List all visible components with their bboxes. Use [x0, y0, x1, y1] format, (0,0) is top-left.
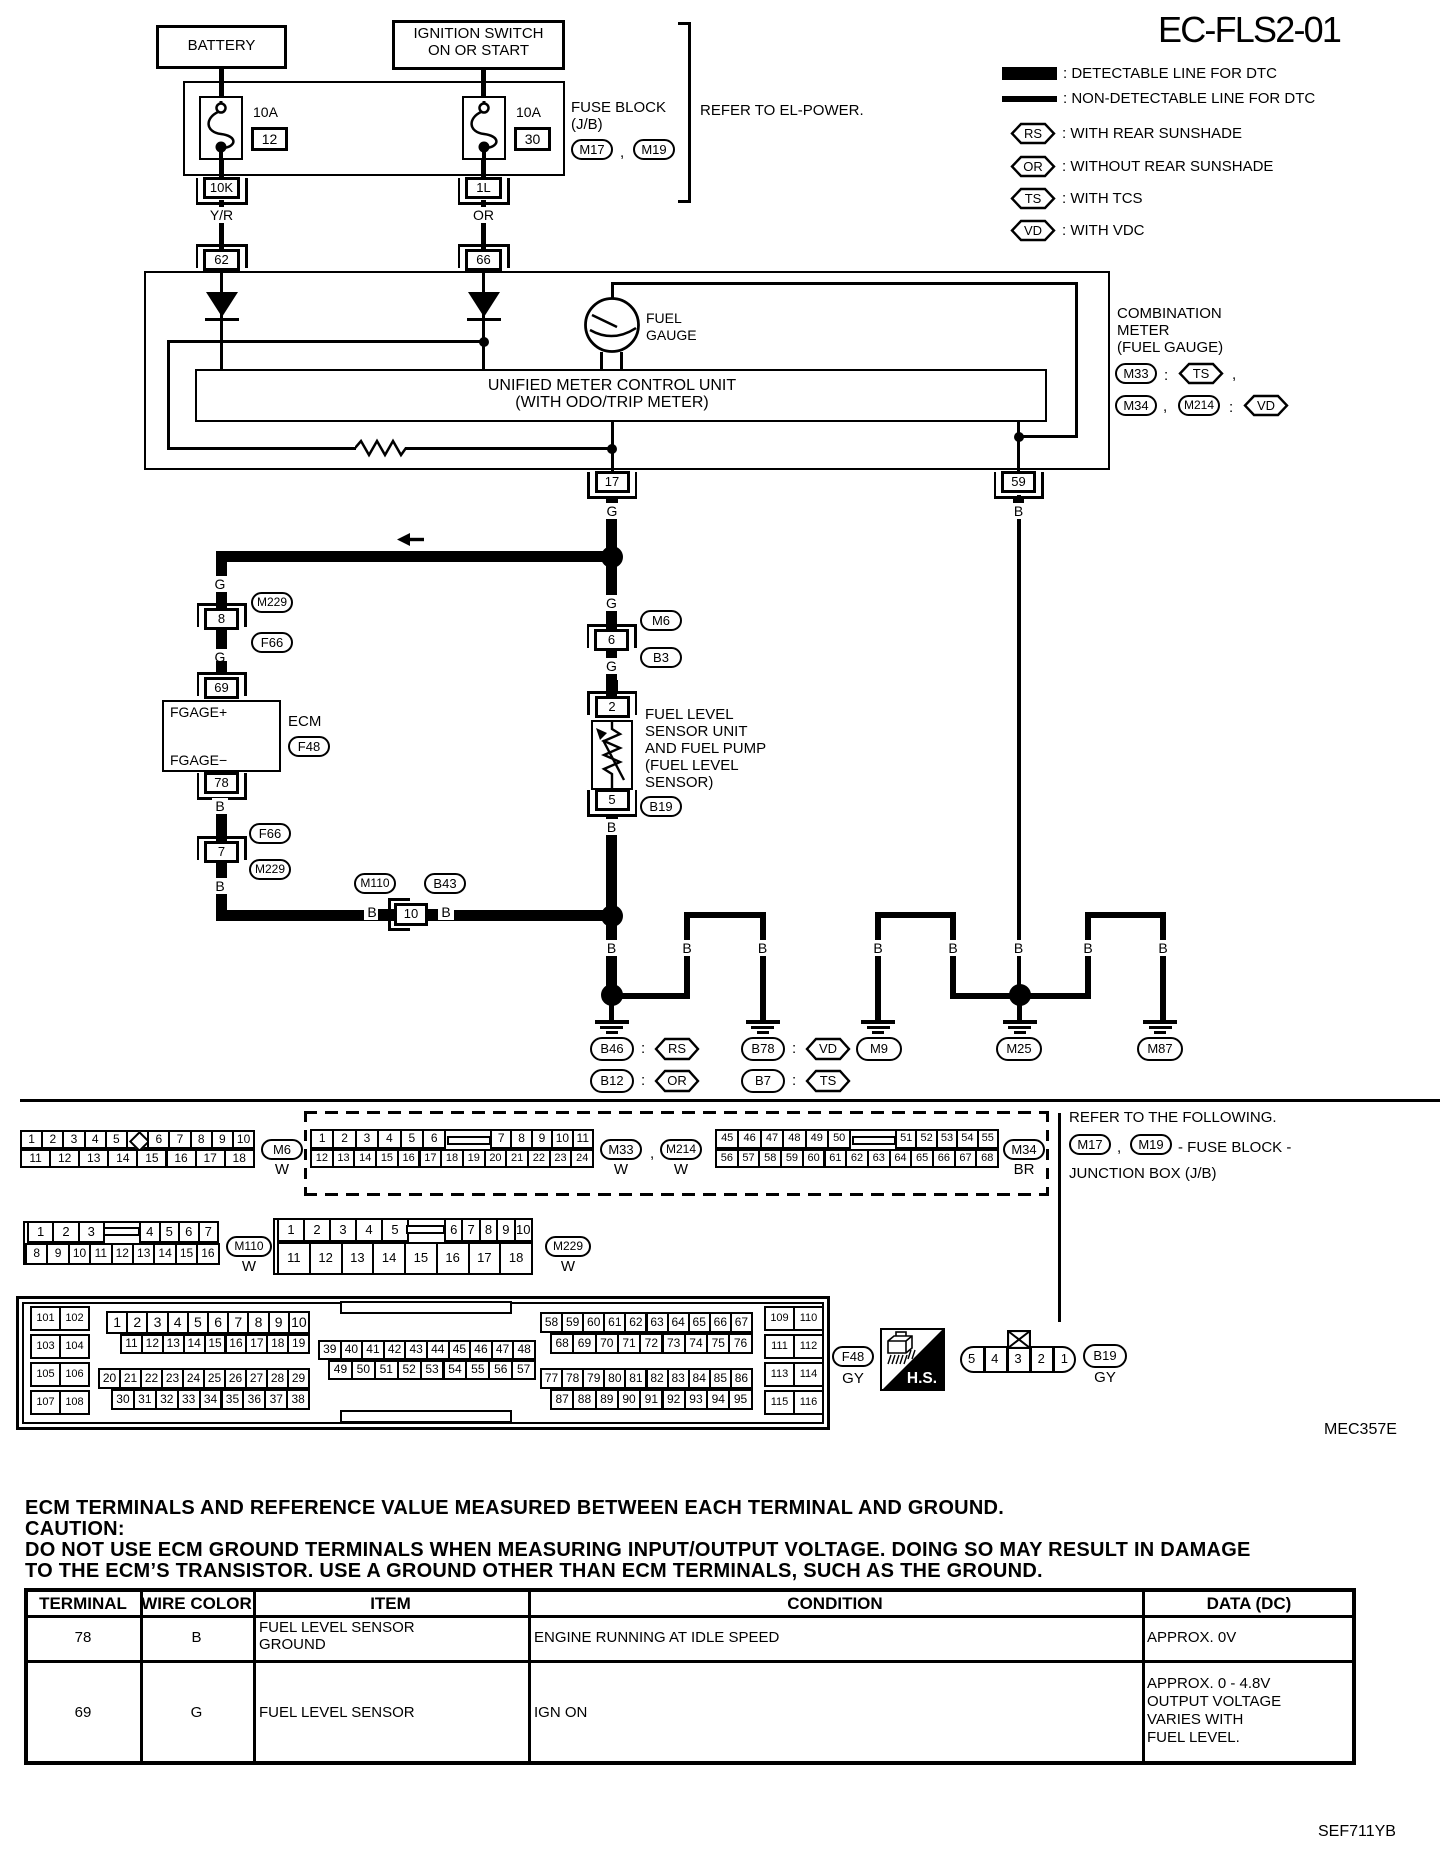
connector M229 pinout — [273, 1218, 531, 1275]
terminal 1L — [458, 202, 510, 205]
fuse2 rating label 10A — [516, 105, 541, 120]
fuse block J/B box — [183, 81, 565, 176]
connector M6 pinout — [20, 1130, 253, 1168]
terminal 2 — [587, 691, 637, 694]
wire color B below 59 — [1017, 495, 1021, 995]
trunk horizontal thick wire — [216, 551, 612, 562]
connector B19 oval label — [1083, 1344, 1127, 1368]
dashed connector group box — [304, 1111, 1049, 1114]
section separator line — [20, 1099, 1440, 1102]
connector M33 pinout — [310, 1129, 592, 1168]
connector 10 — [388, 898, 391, 931]
connector M34 pinout — [715, 1129, 997, 1168]
wire resistor right — [405, 447, 613, 450]
ECM box — [162, 700, 281, 772]
wire color OR — [424, 208, 544, 223]
wire color G below 17 — [606, 498, 617, 558]
connector M25 oval — [996, 1037, 1042, 1061]
wire color G left2 — [160, 650, 280, 665]
connector M110 oval — [354, 873, 396, 894]
connector B43 oval — [424, 873, 466, 894]
connector B46 oval — [590, 1037, 634, 1061]
wire bracket3 to dot — [950, 993, 1022, 999]
connector M110 pinout — [23, 1221, 218, 1265]
legend TS text — [1062, 191, 1143, 208]
connector M34 oval legend — [1115, 395, 1157, 416]
wire color G left1 — [160, 577, 280, 592]
section separator vertical — [1058, 1113, 1061, 1322]
connector M229 oval — [251, 592, 293, 613]
TS hexagon legend — [1178, 362, 1224, 385]
ground4 symbol — [1017, 1004, 1022, 1021]
VD hexagon legend — [1243, 394, 1289, 417]
wire 62 into meter — [220, 273, 223, 369]
title EC-FLS2-01 — [1158, 10, 1340, 50]
wire fuse2 down — [481, 160, 486, 178]
legend OR symbol — [1010, 155, 1056, 178]
connector M229 oval 2 — [249, 859, 291, 880]
fuel gauge circle — [583, 296, 641, 354]
table row 69 — [24, 1705, 142, 1722]
terminal 78 — [197, 797, 247, 800]
VD hexagon ground — [805, 1037, 851, 1061]
wire battery to fuse — [219, 69, 224, 97]
ground bracket2 — [684, 912, 766, 918]
wire fuse1 down — [219, 160, 224, 178]
connector B19 pinout — [960, 1346, 1076, 1373]
terminal 10K — [196, 202, 248, 205]
refer to EL-POWER text — [700, 103, 864, 120]
legend RS symbol — [1010, 122, 1056, 145]
legend VD text — [1062, 223, 1145, 240]
connector M33 oval legend — [1115, 363, 1157, 384]
legend TS symbol — [1010, 187, 1056, 210]
diode D1 — [205, 290, 239, 323]
connector F48 oval label — [832, 1346, 874, 1367]
ECM terminals caution text — [25, 1497, 1004, 1519]
wire color B below 5 — [606, 814, 617, 915]
RS hexagon ground — [654, 1037, 700, 1061]
junction under meter unit — [607, 444, 617, 454]
fuel level sensor label — [645, 707, 734, 724]
ground2 symbol — [746, 1020, 780, 1024]
wire unit to 59 — [1017, 422, 1020, 471]
left branch vertical wire upper — [216, 551, 227, 673]
connector F66 oval — [251, 632, 293, 653]
wire color G right1 — [552, 596, 672, 611]
connector M17 oval ref — [1069, 1134, 1111, 1155]
left branch vertical wire lower — [216, 797, 227, 918]
bottom horizontal wire left — [216, 910, 606, 921]
fuel gauge legs — [600, 352, 603, 370]
wire diode junction horizontal — [167, 340, 485, 343]
refer bracket — [688, 22, 691, 203]
connector M87 oval — [1137, 1037, 1183, 1061]
connector 8 — [197, 603, 247, 606]
ignition switch box — [392, 20, 565, 70]
unified meter control unit box — [195, 369, 1047, 422]
wire 10K to 62 — [219, 200, 224, 249]
wire color B above M25 — [959, 941, 1079, 956]
wire left loop vertical — [167, 340, 170, 450]
wire bracket2 to dot — [611, 993, 690, 999]
fuse 10A #30 — [462, 96, 506, 160]
legend OR text — [1062, 159, 1273, 176]
bottom junction dot — [601, 905, 623, 927]
legend VD symbol — [1010, 219, 1056, 242]
fuse block label — [571, 100, 666, 117]
ground bracket4 — [1085, 912, 1166, 918]
wire unit to 17 — [611, 422, 614, 471]
connector F48 oval — [288, 736, 330, 757]
wire color B at 10 left — [312, 905, 432, 920]
ground1 symbol — [609, 1004, 614, 1021]
fuse 10A #12 — [199, 96, 243, 160]
fuse1 rating label 10A — [253, 105, 278, 120]
trunk junction dot — [601, 546, 623, 568]
connector M9 oval — [856, 1037, 902, 1061]
TS hexagon ground — [805, 1069, 851, 1093]
ground3 symbol — [861, 1020, 895, 1024]
figure code SEF711YB — [1318, 1823, 1396, 1841]
wire 66 into meter — [482, 273, 485, 369]
connector 7 — [197, 836, 247, 839]
legend RS text — [1062, 126, 1242, 143]
connector M229 oval label — [545, 1236, 591, 1257]
ECM reference table — [24, 1588, 1356, 1765]
ECM label — [288, 714, 321, 731]
wire to ground1 — [606, 921, 617, 995]
ground1 junction dot — [601, 984, 623, 1006]
wire color G right2 — [552, 659, 672, 674]
connector M19 oval ref — [1130, 1134, 1172, 1155]
junction at 59 wire — [1014, 432, 1024, 442]
trunk arrow — [397, 533, 425, 546]
fuel gauge label — [646, 311, 682, 326]
connector B7 oval — [741, 1069, 785, 1093]
connector M17 oval — [571, 139, 613, 160]
legend non-detectable text — [1063, 91, 1315, 108]
fuel gauge top wire — [611, 283, 614, 300]
legend detectable text — [1063, 66, 1277, 83]
connector M214 oval legend — [1178, 395, 1220, 416]
connector B19 oval — [640, 796, 682, 817]
figure code MEC357E — [1324, 1421, 1397, 1439]
connector M19 oval — [633, 139, 675, 160]
wire color Y/R — [162, 208, 282, 223]
fuse2 number box 30 — [514, 127, 551, 151]
connector M110 oval label — [226, 1236, 272, 1257]
diode D2 — [467, 290, 501, 323]
wire color B at 10 right — [386, 905, 506, 920]
terminal 62 — [196, 244, 248, 247]
legend detectable line sample — [1002, 67, 1057, 80]
terminal 69 — [197, 672, 247, 675]
table row 78 — [24, 1630, 142, 1647]
connector M6 oval — [640, 610, 682, 631]
combination meter box — [144, 271, 1110, 470]
terminal 17 — [587, 496, 637, 499]
B19 lock tab — [1007, 1330, 1031, 1349]
fuel level sensor box — [591, 720, 633, 790]
junction at diode2 — [479, 337, 489, 347]
terminal 5 — [587, 814, 637, 817]
wire color B left1 — [160, 799, 280, 814]
terminal 59 — [994, 496, 1044, 499]
resistor in meter — [355, 438, 406, 458]
battery B+ box — [156, 25, 287, 69]
connector M214 oval label — [660, 1139, 702, 1160]
OR hexagon ground — [654, 1069, 700, 1093]
connector M6 oval label — [261, 1139, 303, 1160]
fuse1 number box 12 — [251, 127, 288, 151]
ground5 symbol — [1143, 1020, 1177, 1024]
ground4 junction dot — [1009, 984, 1031, 1006]
connector B12 oval — [590, 1069, 634, 1093]
connector M34 oval label — [1003, 1139, 1045, 1160]
wire resistor left — [167, 447, 170, 450]
legend non-detectable line sample — [1002, 96, 1057, 102]
connector 6 — [587, 624, 637, 627]
connector B3 oval — [640, 647, 682, 668]
harness side view symbol H.S. — [880, 1328, 945, 1391]
right branch vertical wire — [606, 562, 617, 702]
table header — [24, 1595, 142, 1614]
wire 1L to 66 — [481, 200, 486, 249]
wire bracket4 to dot — [1019, 993, 1091, 999]
terminal 66 — [458, 244, 510, 247]
connector F66 oval 2 — [249, 823, 291, 844]
wire color B left2 — [160, 879, 280, 894]
combination meter labels — [1117, 306, 1222, 323]
connector F48 ECM pinout — [16, 1296, 830, 1430]
connector B78 oval — [741, 1037, 785, 1061]
connector M33 oval label — [600, 1139, 642, 1160]
ground bracket3 — [875, 912, 956, 918]
svg-text:H.S.: H.S. — [907, 1370, 937, 1387]
wire ignition to fuse — [481, 70, 486, 97]
refer to the following text — [1069, 1110, 1277, 1127]
